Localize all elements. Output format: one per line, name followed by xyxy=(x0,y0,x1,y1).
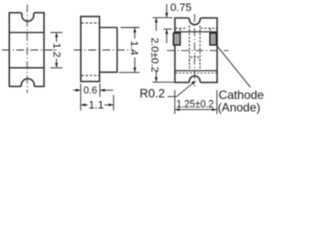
dimension 2.0±0.2 line lower with down arrow xyxy=(155,70,157,81)
back view horizontal centerline xyxy=(167,50,229,52)
dimension 1.2 line lower with down arrow xyxy=(56,59,58,68)
side view step rectangle (electrode) xyxy=(100,28,118,73)
dimension 1.1 line right with right arrow xyxy=(105,104,114,106)
dimension 2.0±0.2 line upper with up arrow xyxy=(155,18,157,31)
svg-text:R0.2: R0.2 xyxy=(140,86,166,100)
dimension 0.6 extension line left xyxy=(80,84,82,111)
svg-text:0.6: 0.6 xyxy=(83,86,97,97)
side view horizontal centerline xyxy=(74,49,133,51)
dimension 1.25±0.2 right extension line xyxy=(216,90,218,114)
back view hidden dashed line below lower boundary xyxy=(176,72,217,74)
cathode leader line xyxy=(216,45,250,87)
back view hidden dashed stub left xyxy=(179,29,181,33)
dimension 0.6 extension line right xyxy=(99,84,101,98)
svg-text:(Anode): (Anode) xyxy=(218,101,261,115)
dimension 1.2 extension line top xyxy=(51,32,63,34)
svg-text:1.1: 1.1 xyxy=(89,100,104,112)
svg-text:1.2: 1.2 xyxy=(50,43,62,58)
front view body outline with top index notch and bottom arch xyxy=(9,13,44,87)
dimension 0.75 top extension line (shared with 2.0 dim) xyxy=(153,17,173,19)
dimension 1.25±0.2 line with inside arrows xyxy=(175,109,216,111)
back view hidden cylinder right edge xyxy=(199,26,201,71)
front view horizontal centerline xyxy=(2,49,59,51)
R0.2 leader line xyxy=(168,81,196,96)
dimension 0.75 down arrow above xyxy=(166,4,168,17)
dimension 2.0±0.2 bottom extension line xyxy=(152,81,174,83)
back view body outline with top notch and bottom arch xyxy=(175,18,217,83)
back view electrode boundary line lower xyxy=(175,70,217,72)
dimension 1.4 line lower with down arrow xyxy=(134,58,136,72)
back view hidden dashed stub right xyxy=(209,29,211,33)
svg-text:2.0±0.2: 2.0±0.2 xyxy=(148,38,160,73)
dimension 0.75 lower extension line xyxy=(164,28,172,30)
dimension 1.1 extension line right xyxy=(113,95,115,111)
back view right electrode pad (cathode) xyxy=(210,33,217,45)
side view tall rectangle (body) xyxy=(81,17,100,82)
back view electrode boundary line upper xyxy=(175,31,217,33)
dimension 1.4 extension line top xyxy=(121,27,140,29)
dimension 0.6 right outside arrow xyxy=(100,89,113,91)
dimension 1.2 line upper with up arrow xyxy=(56,33,58,42)
back view hidden dome cap xyxy=(189,56,200,61)
back view left electrode pad xyxy=(173,33,180,45)
R0.2 leader arrowhead xyxy=(191,81,196,85)
front view bottom electrode line xyxy=(9,67,44,69)
dimension 0.75 up arrow below xyxy=(166,30,168,43)
back view vertical centerline xyxy=(194,14,196,87)
side view hidden dashed line bottom xyxy=(81,75,99,77)
back view hidden cylinder left edge xyxy=(188,26,190,71)
back view hidden dashed line top right segment xyxy=(201,27,217,29)
dimension 0.6 left outside arrow xyxy=(73,89,80,91)
dimension 1.1 line left with left arrow xyxy=(81,104,88,106)
svg-text:1.4: 1.4 xyxy=(128,41,140,56)
dimension 1.2 extension line bottom xyxy=(51,67,63,69)
front view vertical centerline xyxy=(26,5,28,94)
dimension 1.25±0.2 left extension line xyxy=(174,90,176,114)
dimension 1.4 extension line bottom xyxy=(119,71,140,73)
svg-text:0.75: 0.75 xyxy=(170,2,191,14)
dimension 1.4 line upper with up arrow xyxy=(134,28,136,38)
svg-text:1.25±0.2: 1.25±0.2 xyxy=(176,98,214,111)
back view hidden dashed line top left segment xyxy=(175,27,187,29)
side view hidden dashed line top xyxy=(81,22,99,24)
front view top electrode line xyxy=(9,32,44,34)
